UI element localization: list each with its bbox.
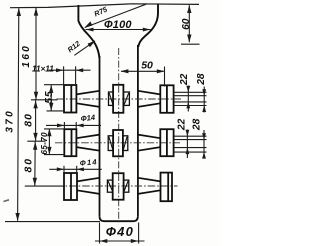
- node ext-phi14-row3-left: [63, 166, 65, 173]
- arrow 11x11 right: [76, 68, 83, 72]
- component row3-right-tip-block: [161, 173, 173, 202]
- node centerline-vertical: [118, 48, 120, 224]
- svg-text:65-70: 65-70: [39, 132, 49, 155]
- arrow 28-row1 down: [202, 89, 206, 96]
- dimension 28 row2 line: [203, 130, 205, 159]
- node scan-mark: [4, 200, 10, 202]
- node ext-row1-right-d: [174, 105, 207, 107]
- dimension phi100 line: [86, 29, 151, 31]
- svg-text:Ф14: Ф14: [79, 157, 98, 168]
- svg-text:Ф14: Ф14: [80, 113, 96, 124]
- node ext-60-bottom: [181, 43, 200, 45]
- arrow 11x11 left: [56, 68, 63, 72]
- component row3-center-boss: [107, 173, 128, 200]
- arrow 60 up: [187, 5, 191, 13]
- arrow 28-row2 down: [202, 133, 206, 140]
- node centerline-row1: [57, 98, 182, 100]
- arrow 370 up: [17, 8, 21, 16]
- node top-extension-line: [10, 4, 199, 8]
- dimension 370 vertical line: [18, 8, 19, 221]
- wire column-left-edge: [99, 56, 101, 216]
- arrow phi14-row2 left: [57, 124, 64, 128]
- arrow 65-70 up: [47, 129, 51, 137]
- wire row1-left-cone: [76, 91, 99, 107]
- wire row2-right-cone: [138, 135, 160, 151]
- arrow R75 tip: [84, 21, 92, 27]
- arrow phi14-row2 right: [76, 124, 83, 128]
- dimension 22 row2 line: [186, 130, 188, 159]
- svg-text:60: 60: [181, 18, 192, 30]
- wire part-outline-left-funnel: [78, 5, 99, 58]
- arrow 65-70 down: [47, 147, 51, 155]
- arrow 55 down: [49, 103, 53, 111]
- dimension 55 line: [50, 85, 52, 110]
- component row2-right-tip-block: [160, 129, 173, 156]
- arrow 80l down: [33, 178, 37, 186]
- node ext-phi40-left: [99, 223, 101, 244]
- svg-text:Ф100: Ф100: [104, 19, 132, 31]
- wire column-right-edge: [137, 45, 139, 216]
- wire bottom-extension-line: [5, 221, 100, 223]
- wire row2-left-cone: [76, 135, 99, 151]
- node ext-phi14-row2-right: [75, 122, 77, 129]
- component row2-center-boss: [108, 130, 128, 156]
- node ext-row1-right-b: [174, 95, 207, 97]
- component row1-right-tip-block: [160, 85, 173, 113]
- arrow phi100 left: [86, 28, 94, 32]
- dimension 28 row1 line: [203, 87, 205, 113]
- svg-text:28: 28: [196, 73, 207, 86]
- node ext-row2-right-c: [174, 147, 207, 149]
- arrow phi100 right: [143, 28, 151, 32]
- arrow 80l up: [33, 142, 37, 150]
- node ext-55-bottom: [47, 110, 64, 112]
- dimension 11x11 line: [49, 69, 91, 71]
- component row2-left-tip-block: [64, 129, 76, 156]
- svg-text:370: 370: [4, 109, 15, 133]
- arrow 22-row2 up: [186, 147, 190, 154]
- arrow 80u down: [33, 133, 37, 141]
- leader R12: [74, 41, 95, 55]
- arrow 22-row2 down: [186, 130, 190, 137]
- leader R75: [85, 4, 147, 28]
- dimension 160 vertical line: [35, 8, 37, 100]
- node ext-55-top: [44, 84, 64, 86]
- dimension phi14 row3 line: [49, 168, 102, 170]
- node centerline-row3: [56, 185, 178, 187]
- wire row3-right-cone: [138, 178, 161, 194]
- node ext-65-70-top: [44, 128, 64, 130]
- arrow 80u up: [33, 100, 37, 108]
- wire row3-left-cone: [77, 178, 100, 194]
- svg-text:55: 55: [44, 91, 55, 104]
- wire column-bottom-edge: [100, 216, 138, 221]
- arrow 50 right: [157, 69, 165, 73]
- node ext-row2-right-d: [174, 151, 207, 153]
- node ext-50-right: [164, 67, 166, 87]
- node ext-row1-left: [31, 99, 58, 101]
- node ext-phi40-right: [138, 223, 140, 244]
- component row3-left-tip-block: [64, 173, 77, 200]
- dimension phi40 line: [95, 240, 145, 242]
- svg-text:50: 50: [141, 60, 153, 72]
- dimension 80 lower line: [34, 142, 36, 186]
- arrow phi14-row3 left: [57, 167, 64, 171]
- svg-text:80: 80: [24, 157, 35, 173]
- arrow 28-row1 up: [202, 105, 206, 112]
- node ext-11x11-left: [63, 66, 65, 85]
- svg-text:28: 28: [191, 118, 202, 131]
- arrow phi40 right: [131, 239, 139, 243]
- svg-text:80: 80: [24, 113, 35, 127]
- wire part-outline-right-funnel: [138, 4, 158, 47]
- dimension 60 line: [188, 5, 190, 42]
- node ext-row2-right-b: [174, 139, 207, 141]
- arrow phi40 left: [100, 239, 108, 243]
- arrow 160 up: [34, 8, 38, 16]
- dimension 65-70 line: [48, 129, 50, 155]
- component row1-left-tip-block: [64, 85, 76, 113]
- dimension 80 upper line: [35, 100, 37, 141]
- arrow R12 tip: [88, 41, 96, 48]
- dimension 50 line: [121, 70, 164, 72]
- node ext-row1-right-c: [174, 101, 207, 103]
- svg-text:11×11: 11×11: [32, 65, 54, 74]
- dimension 22 row1 line: [187, 86, 189, 112]
- node ext-65-70-bottom: [44, 154, 64, 156]
- arrow 60 down: [187, 35, 191, 43]
- svg-text:R75: R75: [93, 4, 110, 18]
- svg-text:160: 160: [21, 44, 32, 68]
- dimension phi14 row2 line: [46, 124, 101, 126]
- svg-text:Ф40: Ф40: [106, 224, 134, 239]
- arrow 28-row2 up: [202, 152, 206, 159]
- svg-text:22: 22: [176, 118, 187, 131]
- node ext-phi14-row3-right: [76, 166, 78, 173]
- arrow 55 up: [49, 85, 53, 93]
- arrow 22-row1 up: [186, 102, 190, 109]
- arrow 50 left: [121, 69, 129, 73]
- arrow 160 down: [34, 92, 38, 100]
- arrow phi14-row3 right: [77, 167, 84, 171]
- wire row1-right-cone: [138, 91, 160, 107]
- node ext-row3-left: [25, 185, 63, 187]
- node ext-row1-right-a: [174, 91, 207, 93]
- component row1-center-boss: [109, 85, 130, 113]
- svg-text:22: 22: [179, 73, 190, 86]
- node ext-phi14-row2-left: [63, 122, 65, 129]
- node ext-row2-left: [27, 140, 45, 142]
- arrow 22-row1 down: [186, 86, 190, 93]
- node ext-11x11-right: [75, 66, 77, 85]
- node centerline-row2: [55, 142, 180, 144]
- node ext-row2-right-a: [174, 135, 207, 137]
- arrow 370 down: [15, 213, 19, 221]
